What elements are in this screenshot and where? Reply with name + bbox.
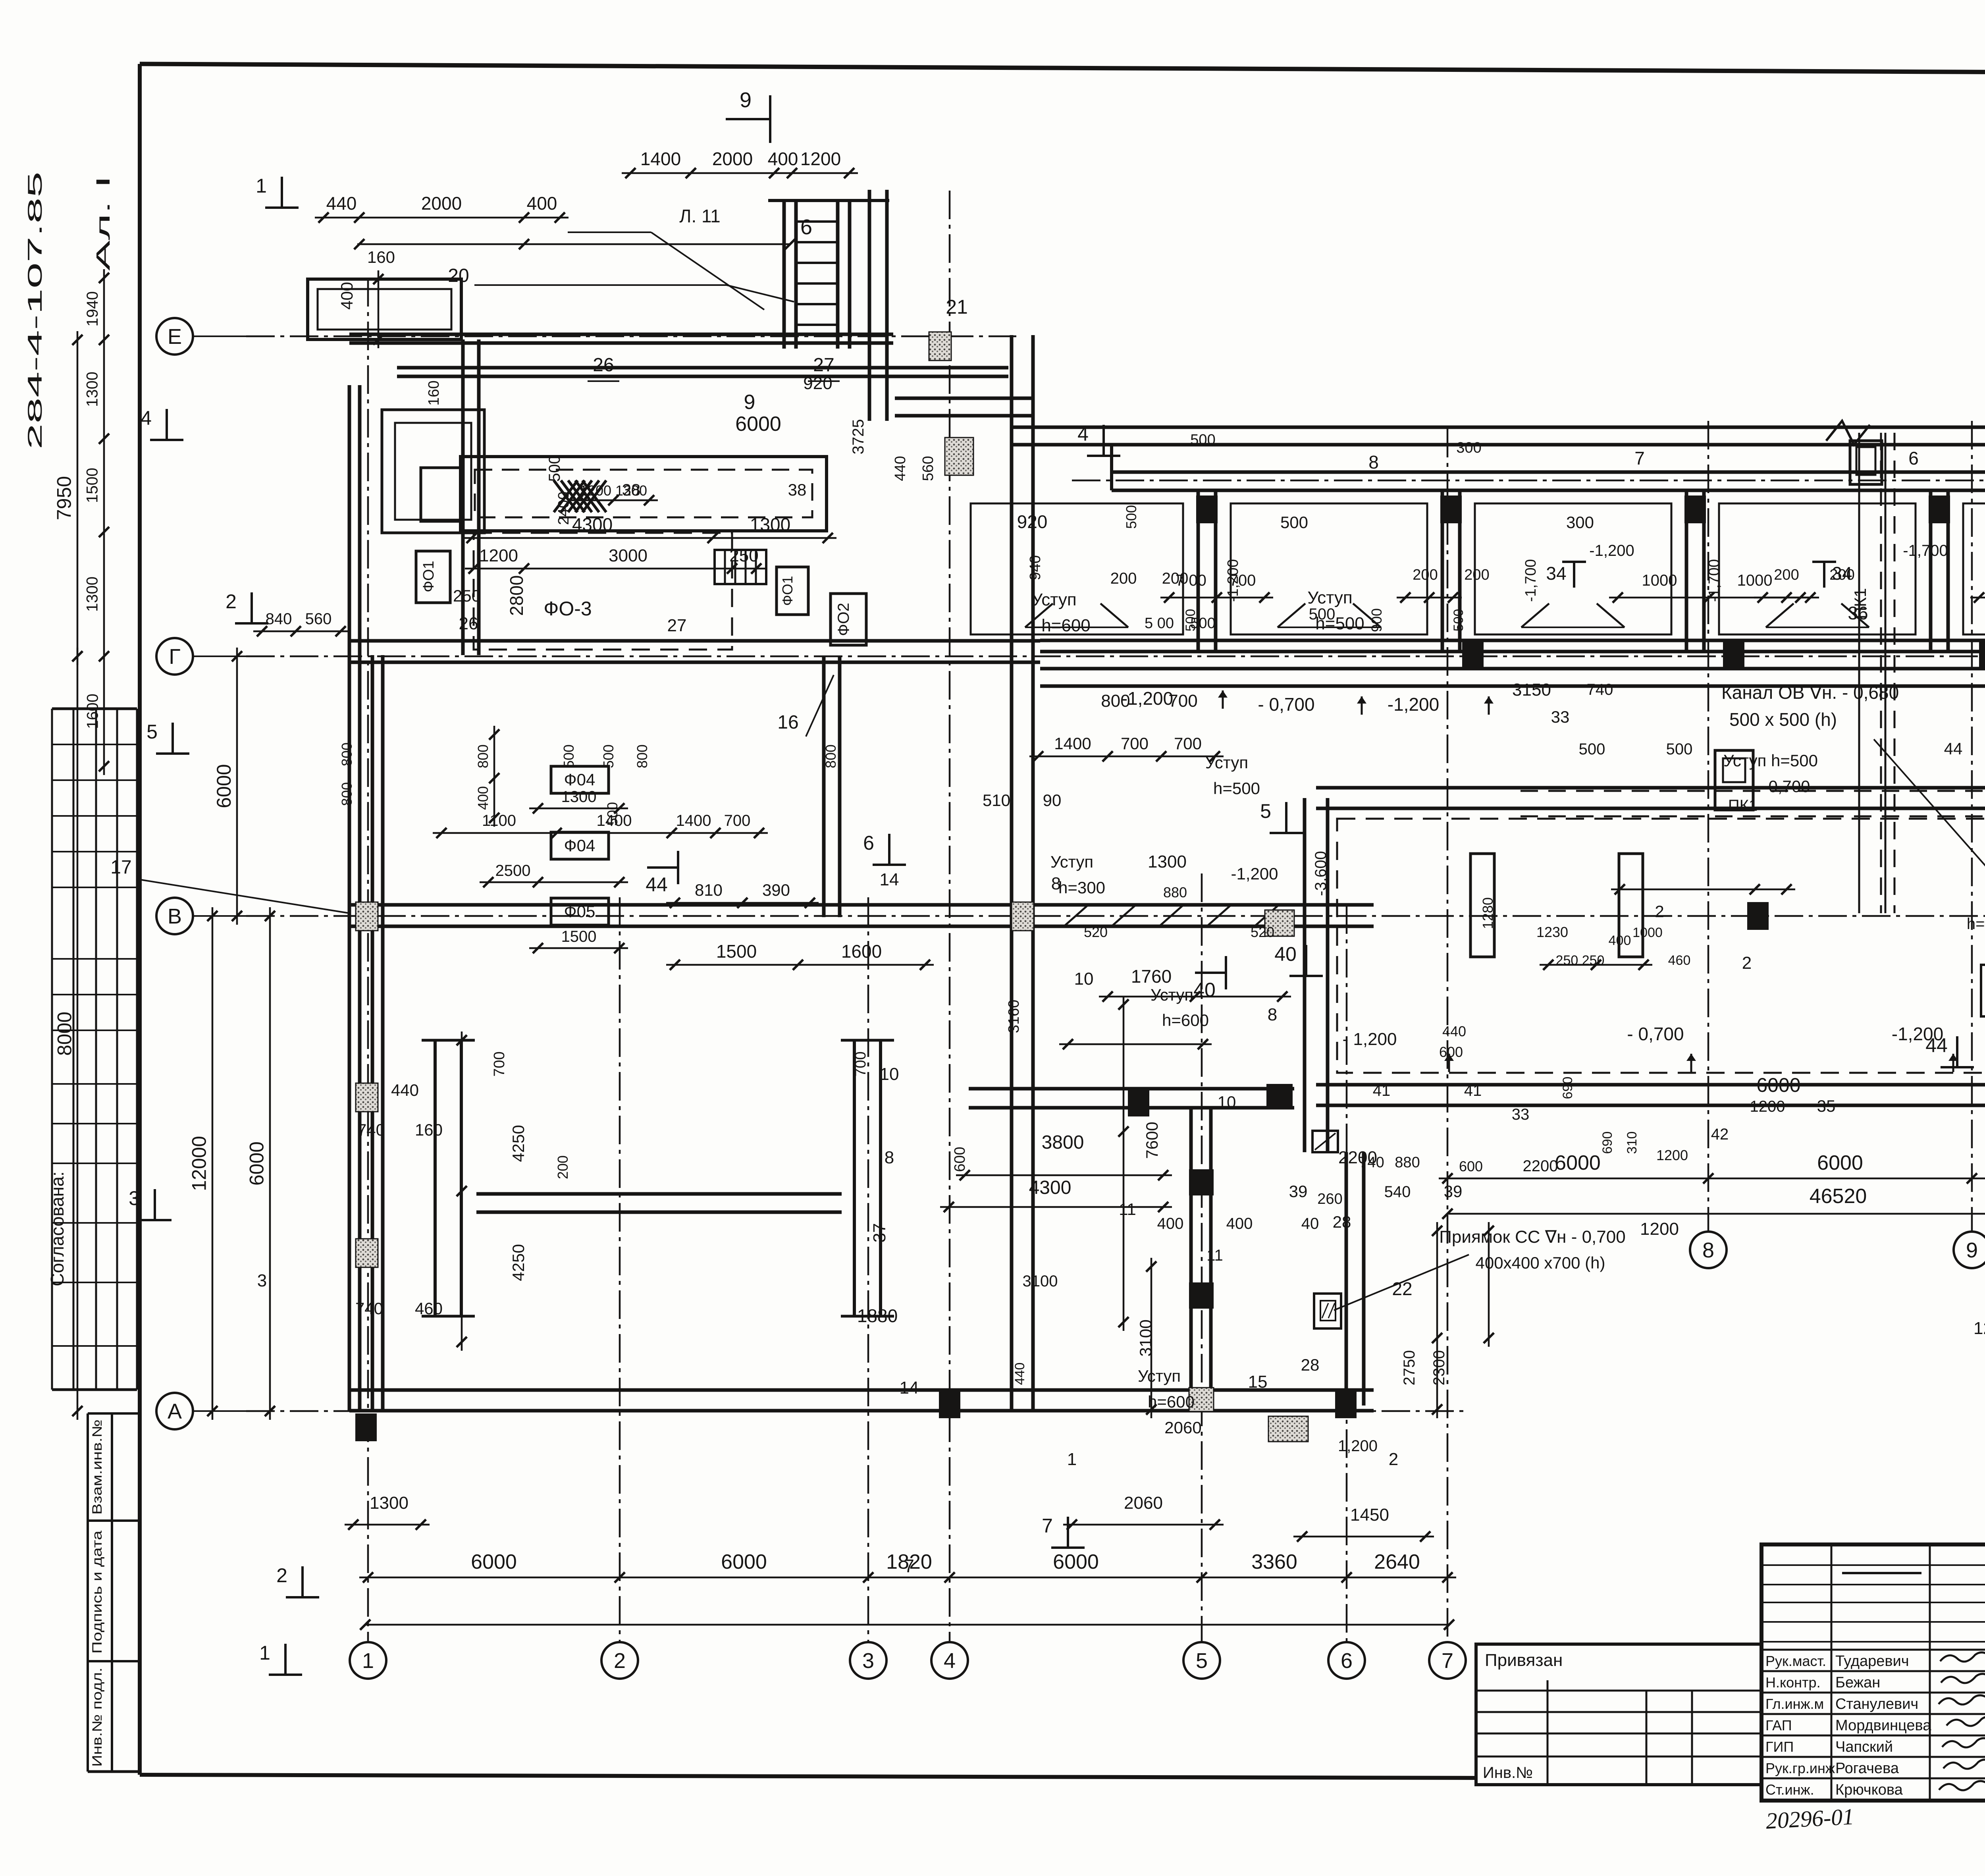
top stair walls: [782, 201, 786, 349]
svg-text:1300: 1300: [84, 372, 101, 407]
svg-text:8000: 8000: [54, 1012, 76, 1056]
svg-text:2: 2: [1742, 953, 1752, 973]
svg-text:1400: 1400: [1054, 734, 1091, 753]
svg-text:3150: 3150: [1512, 680, 1551, 700]
right dimension chain: [1439, 1178, 1985, 1180]
svg-text:20296-01: 20296-01: [1765, 1803, 1854, 1834]
svg-text:740: 740: [357, 1120, 385, 1139]
svg-text:16: 16: [777, 712, 798, 733]
svg-text:Инв.№: Инв.№: [1483, 1764, 1533, 1782]
svg-text:700: 700: [491, 1051, 508, 1076]
svg-text:3160: 3160: [1006, 1000, 1022, 1033]
svg-text:Привязан: Привязан: [1485, 1650, 1563, 1670]
svg-text:560: 560: [920, 456, 937, 481]
svg-text:Мордвинцева: Мордвинцева: [1835, 1717, 1931, 1734]
B axis wall left: [349, 903, 1040, 907]
svg-text:520: 520: [1251, 924, 1274, 940]
svg-text:Ал. I: Ал. I: [93, 175, 114, 271]
svg-text:700: 700: [1174, 734, 1202, 753]
svg-text:Канал ОВ ∇н. - 0,680: Канал ОВ ∇н. - 0,680: [1721, 682, 1899, 703]
chains below G: [433, 832, 768, 834]
svg-text:2000: 2000: [421, 193, 462, 214]
svg-text:740: 740: [355, 1299, 383, 1318]
svg-text:46520: 46520: [1810, 1185, 1867, 1208]
interior wall x=2095: [822, 656, 826, 917]
svg-text:600: 600: [1459, 1158, 1483, 1174]
margin approval table: [51, 709, 53, 1390]
svg-text:500 х 500 (h): 500 х 500 (h): [1729, 709, 1837, 730]
svg-text:1200: 1200: [1640, 1219, 1679, 1239]
svg-text:440: 440: [326, 193, 357, 214]
svg-text:- 0,700: - 0,700: [1258, 694, 1314, 715]
svg-text:8: 8: [1268, 1005, 1277, 1024]
svg-text:2300: 2300: [1430, 1350, 1448, 1386]
svg-text:1230: 1230: [1536, 924, 1568, 940]
svg-text:200: 200: [1464, 567, 1489, 583]
svg-text:440: 440: [892, 456, 909, 481]
svg-text:520: 520: [1084, 924, 1108, 940]
interior columns double-T: [434, 1040, 437, 1316]
svg-text:940: 940: [1027, 555, 1044, 580]
svg-text:6000: 6000: [471, 1550, 517, 1573]
svg-text:1200: 1200: [800, 148, 841, 169]
svg-text:200: 200: [555, 1155, 571, 1179]
svg-text:14: 14: [900, 1378, 919, 1398]
svg-text:Уступ h=500: Уступ h=500: [1723, 751, 1818, 770]
svg-text:15: 15: [1248, 1372, 1268, 1392]
svg-text:-0,700: -0,700: [1763, 777, 1810, 796]
svg-text:400: 400: [475, 786, 491, 810]
svg-text:39: 39: [1289, 1182, 1308, 1201]
svg-text:500: 500: [1190, 432, 1215, 448]
svg-text:1: 1: [362, 1649, 374, 1673]
svg-text:Бежан: Бежан: [1835, 1674, 1880, 1691]
svg-text:41: 41: [1464, 1082, 1482, 1099]
svg-text:4: 4: [141, 407, 152, 429]
svg-text:-1,700: -1,700: [1522, 559, 1539, 602]
title block: [1761, 1544, 1985, 1801]
svg-text:12000: 12000: [188, 1136, 210, 1191]
section marks and misc labels left: [281, 177, 283, 208]
svg-text:1200: 1200: [1656, 1147, 1688, 1163]
svg-text:1600: 1600: [841, 941, 882, 962]
svg-text:2: 2: [1655, 902, 1664, 921]
svg-text:1000: 1000: [1632, 925, 1663, 940]
svg-text:8: 8: [885, 1148, 894, 1167]
svg-text:2500: 2500: [495, 862, 531, 879]
hatched service room: [461, 457, 827, 531]
svg-text:6: 6: [1341, 1649, 1353, 1673]
svg-text:11: 11: [1119, 1200, 1136, 1219]
svg-text:400: 400: [768, 148, 798, 169]
svg-text:5 00: 5 00: [1145, 615, 1174, 632]
svg-text:26: 26: [459, 614, 478, 633]
svg-text:1600: 1600: [84, 694, 102, 729]
svg-text:Уступ: Уступ: [1307, 588, 1352, 607]
svg-text:5: 5: [146, 721, 158, 743]
svg-text:38: 38: [622, 480, 641, 499]
svg-text:Ст.инж.: Ст.инж.: [1765, 1782, 1814, 1798]
svg-text:34: 34: [1546, 563, 1566, 584]
svg-text:Взам.инв.№: Взам.инв.№: [90, 1419, 105, 1515]
axis4 big wall: [1010, 335, 1014, 1411]
svg-text:250: 250: [729, 546, 758, 565]
hatched pads left building: [356, 902, 378, 931]
svg-text:300: 300: [1456, 440, 1481, 456]
svg-text:840: 840: [266, 610, 292, 628]
svg-text:920: 920: [803, 374, 832, 393]
big hall outline: [1316, 786, 1985, 790]
svg-text:500: 500: [1451, 609, 1466, 632]
svg-text:1500: 1500: [84, 468, 101, 503]
svg-text:4250: 4250: [509, 1244, 528, 1281]
svg-text:7600: 7600: [1143, 1122, 1161, 1159]
priyamok detail: [1314, 1294, 1341, 1328]
svg-text:200: 200: [1829, 567, 1854, 583]
svg-text:440: 440: [1012, 1363, 1027, 1385]
svg-text:1200: 1200: [580, 482, 611, 499]
svg-text:260: 260: [1317, 1191, 1342, 1207]
axis dash-dot lines horizontal: [246, 335, 1016, 337]
axis letter circles: [156, 318, 193, 355]
svg-text:33: 33: [1512, 1106, 1530, 1123]
svg-text:10: 10: [1218, 1093, 1236, 1111]
svg-text:880: 880: [1163, 884, 1187, 900]
svg-text:2060: 2060: [1124, 1493, 1163, 1513]
svg-text:Гл.инж.м: Гл.инж.м: [1765, 1696, 1824, 1712]
svg-text:6000: 6000: [721, 1550, 767, 1573]
svg-text:6: 6: [863, 832, 874, 854]
svg-text:440: 440: [1442, 1023, 1466, 1039]
svg-text:6000: 6000: [213, 764, 235, 808]
svg-text:8: 8: [1702, 1238, 1714, 1262]
svg-text:500: 500: [1579, 740, 1605, 758]
svg-text:500: 500: [1280, 513, 1308, 532]
svg-text:27: 27: [667, 616, 687, 635]
svg-text:400х400 х700 (h): 400х400 х700 (h): [1476, 1253, 1605, 1272]
svg-text:800: 800: [339, 742, 355, 766]
svg-text:h=600: h=600: [1162, 1011, 1209, 1030]
svg-text:h=600: h=600: [1148, 1392, 1195, 1411]
svg-text:4300: 4300: [572, 514, 613, 535]
wall right of stair: [868, 190, 871, 421]
svg-text:21: 21: [946, 296, 968, 318]
svg-text:38: 38: [788, 480, 807, 499]
svg-text:7: 7: [1634, 448, 1645, 469]
svg-text:740: 740: [1587, 681, 1613, 698]
svg-text:9: 9: [740, 88, 752, 112]
svg-text:-1,700: -1,700: [1903, 542, 1948, 559]
svg-text:500: 500: [561, 744, 577, 768]
svg-text:2640: 2640: [1374, 1550, 1420, 1573]
FO boxes: [416, 551, 450, 603]
svg-text:1300: 1300: [561, 788, 597, 806]
svg-text:1: 1: [259, 1642, 270, 1664]
room FO-3 dashed: [474, 533, 732, 650]
svg-text:20: 20: [448, 265, 469, 286]
svg-text:1450: 1450: [1350, 1505, 1389, 1525]
svg-text:740: 740: [1359, 1154, 1384, 1171]
svg-text:460: 460: [1668, 953, 1691, 968]
svg-text:h=300: h=300: [1058, 878, 1105, 897]
svg-text:1200: 1200: [479, 546, 518, 565]
svg-text:500: 500: [600, 744, 617, 768]
svg-text:44: 44: [1944, 739, 1963, 758]
svg-text:510: 510: [983, 791, 1010, 810]
svg-text:5: 5: [1196, 1649, 1208, 1673]
svg-text:6000: 6000: [735, 413, 781, 436]
hatch mark: [554, 480, 606, 512]
svg-text:3: 3: [862, 1649, 874, 1673]
svg-text:2060: 2060: [1164, 1418, 1201, 1437]
svg-text:Уступ: Уступ: [1031, 590, 1076, 609]
svg-text:1760: 1760: [1131, 966, 1172, 987]
A axis wall: [349, 1388, 1374, 1392]
chains around FO-3: [465, 568, 765, 570]
svg-text:400: 400: [1226, 1215, 1253, 1232]
svg-text:41: 41: [1373, 1082, 1391, 1099]
svg-text:40: 40: [1301, 1215, 1319, 1232]
svg-text:3: 3: [129, 1187, 140, 1209]
svg-text:390: 390: [762, 881, 790, 899]
svg-text:Уступ: Уступ: [1050, 852, 1093, 871]
svg-text:400: 400: [527, 193, 557, 214]
svg-text:28: 28: [1301, 1355, 1320, 1374]
svg-text:5: 5: [1260, 800, 1271, 822]
svg-text:7950: 7950: [53, 476, 75, 520]
black pads on A wall: [355, 1413, 377, 1441]
svg-text:10: 10: [1074, 969, 1094, 989]
left vertical dim chains: [77, 331, 79, 665]
room dividers with pads and inner rects: [1197, 490, 1200, 652]
svg-text:1400: 1400: [676, 812, 711, 829]
svg-text:440: 440: [391, 1081, 419, 1099]
svg-text:1000: 1000: [1642, 572, 1677, 589]
sheet frame: [140, 64, 1985, 75]
svg-text:880: 880: [1395, 1154, 1420, 1171]
svg-text:Е: Е: [168, 325, 182, 349]
bottom axis circles 1-7: [350, 1642, 386, 1679]
svg-text:Подпись и дата: Подпись и дата: [90, 1531, 105, 1654]
svg-text:1,200: 1,200: [1338, 1437, 1378, 1455]
svg-text:3800: 3800: [1042, 1132, 1084, 1153]
svg-text:700: 700: [1121, 734, 1149, 753]
svg-text:400: 400: [337, 282, 356, 310]
chains middle bottom: [1099, 996, 1291, 998]
svg-text:ФО-3: ФО-3: [543, 598, 592, 620]
svg-text:Тударевич: Тударевич: [1835, 1653, 1909, 1670]
svg-text:-1,200: -1,200: [1122, 688, 1173, 709]
svg-text:Рогачева: Рогачева: [1835, 1760, 1899, 1777]
top connector wall y=1025: [895, 397, 1032, 400]
svg-text:ФО1: ФО1: [420, 561, 437, 592]
svg-text:800: 800: [634, 744, 650, 768]
svg-text:-1,200: -1,200: [1388, 694, 1439, 715]
right axis circles 8-11: [1690, 1232, 1727, 1268]
svg-text:h=600: h=600: [1041, 616, 1091, 635]
G axis wall: [349, 639, 1040, 643]
FO4 FO5 boxes: [551, 766, 609, 793]
svg-text:Согласована:: Согласована:: [47, 1171, 67, 1286]
svg-text:2800: 2800: [506, 575, 527, 616]
right building top wall: [1012, 426, 1985, 429]
svg-text:7 00: 7 00: [1176, 572, 1206, 589]
svg-text:Ф04: Ф04: [564, 770, 595, 789]
svg-text:7: 7: [1442, 1649, 1453, 1673]
svg-text:800: 800: [475, 744, 491, 768]
bottom dimension chain: [359, 1577, 1456, 1579]
svg-text:35: 35: [1817, 1097, 1836, 1115]
svg-text:6: 6: [1908, 448, 1919, 469]
svg-text:h=500: h=500: [1967, 915, 1985, 933]
svg-text:-3,600: -3,600: [1312, 851, 1330, 896]
svg-text:1880: 1880: [857, 1305, 898, 1326]
svg-text:9: 9: [744, 391, 755, 414]
svg-text:Чапский: Чапский: [1835, 1739, 1893, 1755]
svg-text:6000: 6000: [1053, 1550, 1099, 1573]
svg-text:1000: 1000: [1737, 572, 1773, 589]
svg-text:ФО1: ФО1: [779, 576, 796, 605]
svg-text:40: 40: [1274, 943, 1297, 965]
svg-text:- 0,700: - 0,700: [1627, 1024, 1684, 1044]
svg-text:2: 2: [225, 590, 237, 613]
svg-text:3725: 3725: [850, 419, 867, 455]
svg-text:10: 10: [880, 1064, 899, 1084]
top-left dim chains: [315, 217, 569, 219]
svg-text:1: 1: [1067, 1450, 1077, 1469]
svg-text:920: 920: [1017, 511, 1048, 532]
svg-text:1300: 1300: [750, 514, 790, 535]
svg-text:460: 460: [415, 1299, 443, 1318]
svg-text:250: 250: [453, 586, 481, 605]
svg-text:6000: 6000: [1756, 1074, 1800, 1096]
break mark: [1826, 421, 1870, 445]
svg-text:Н.контр.: Н.контр.: [1765, 1674, 1821, 1691]
svg-text:33: 33: [1551, 708, 1570, 726]
svg-text:ФО2: ФО2: [835, 603, 852, 636]
svg-text:В: В: [168, 904, 182, 928]
svg-text:- 1,200: - 1,200: [1343, 1030, 1397, 1049]
svg-text:8: 8: [1051, 874, 1061, 893]
svg-text:200: 200: [1774, 567, 1799, 583]
svg-text:400: 400: [1609, 933, 1631, 948]
svg-text:-1,200: -1,200: [1231, 864, 1278, 883]
svg-text:690: 690: [1600, 1132, 1615, 1154]
svg-text:44: 44: [646, 873, 668, 896]
top-left protrusion: [308, 279, 461, 339]
svg-text:810: 810: [695, 881, 723, 899]
svg-text:Инв.№ подл.: Инв.№ подл.: [90, 1668, 105, 1767]
svg-text:540: 540: [1384, 1183, 1411, 1201]
svg-text:2: 2: [1389, 1450, 1398, 1469]
left building west wall axis1: [348, 385, 351, 1411]
chains right building: [1160, 597, 1273, 599]
svg-text:37: 37: [870, 1223, 889, 1243]
svg-text:400: 400: [1157, 1215, 1184, 1232]
B wall extension hatch steps: [1040, 903, 1374, 907]
svg-text:1500: 1500: [716, 941, 757, 962]
svg-text:3000: 3000: [609, 546, 648, 565]
svg-text:4: 4: [944, 1649, 956, 1673]
svg-text:1940: 1940: [84, 291, 101, 327]
svg-text:36: 36: [1848, 603, 1868, 623]
svg-text:27: 27: [813, 355, 834, 376]
svg-text:3360: 3360: [1251, 1550, 1297, 1573]
privyazan block: [1476, 1644, 1761, 1785]
svg-text:Уступ: Уступ: [1138, 1367, 1181, 1385]
svg-text:-1,700: -1,700: [1706, 559, 1723, 602]
svg-text:Г: Г: [169, 645, 180, 669]
svg-text:7: 7: [1042, 1515, 1053, 1537]
svg-text:690: 690: [1560, 1077, 1575, 1099]
svg-text:4300: 4300: [1029, 1177, 1072, 1198]
svg-text:h=500: h=500: [1213, 779, 1260, 798]
svg-text:2: 2: [276, 1564, 287, 1587]
svg-text:40: 40: [1193, 979, 1216, 1001]
PK1 channel horizontal: [1521, 790, 1985, 792]
svg-text:200: 200: [1110, 570, 1137, 587]
rooms below G left part: [1040, 903, 1316, 907]
corridor connector: [476, 1192, 842, 1196]
svg-text:2750: 2750: [1401, 1350, 1418, 1386]
svg-text:2200: 2200: [1523, 1157, 1558, 1175]
svg-text:1300: 1300: [84, 576, 101, 612]
svg-text:1200: 1200: [1750, 1098, 1785, 1115]
svg-text:1200: 1200: [1973, 1319, 1985, 1338]
svg-text:А: А: [168, 1400, 182, 1423]
svg-text:9: 9: [1966, 1238, 1978, 1262]
svg-text:6000: 6000: [1817, 1151, 1863, 1174]
wall x=1186 E-G: [461, 339, 465, 655]
svg-text:2400: 2400: [555, 492, 572, 525]
svg-text:-1,200: -1,200: [1225, 559, 1241, 602]
G band right: [1040, 639, 1985, 642]
PK1 shaft vertical: [1880, 433, 1882, 913]
h=500 step detail in hall: [1981, 965, 1985, 1016]
svg-text:Рук.маст.: Рук.маст.: [1765, 1653, 1826, 1669]
svg-text:Крючкова: Крючкова: [1835, 1782, 1903, 1798]
svg-text:500: 500: [1666, 740, 1693, 758]
pads on B axis right: [1747, 902, 1769, 930]
margin bottom strip: [87, 1413, 89, 1772]
svg-text:14: 14: [880, 870, 899, 889]
svg-text:700: 700: [852, 1051, 869, 1076]
svg-text:1: 1: [256, 175, 267, 197]
svg-text:ГИП: ГИП: [1765, 1739, 1794, 1755]
svg-text:700: 700: [724, 812, 751, 829]
svg-text:1500: 1500: [561, 928, 597, 945]
svg-text:Ф04: Ф04: [564, 836, 595, 855]
svg-text:3100: 3100: [1023, 1273, 1058, 1290]
small rect left of hall: [1470, 854, 1494, 957]
svg-text:8: 8: [1368, 452, 1379, 472]
small stair mid: [715, 550, 766, 584]
svg-text:1400: 1400: [640, 148, 681, 169]
mid vertical wall x=3025: [1189, 1108, 1193, 1400]
svg-text:11: 11: [1206, 1247, 1223, 1264]
svg-text:ГАП: ГАП: [1765, 1717, 1792, 1733]
svg-text:3: 3: [257, 1271, 267, 1290]
svg-text:500: 500: [1123, 505, 1139, 529]
svg-text:160: 160: [426, 380, 442, 405]
svg-text:39: 39: [1444, 1182, 1463, 1201]
svg-text:800: 800: [823, 744, 839, 768]
svg-text:160: 160: [367, 248, 395, 266]
svg-text:42: 42: [1711, 1126, 1729, 1143]
svg-text:26: 26: [593, 355, 614, 376]
E axis wall left building: [349, 333, 893, 336]
svg-text:4250: 4250: [509, 1125, 528, 1162]
